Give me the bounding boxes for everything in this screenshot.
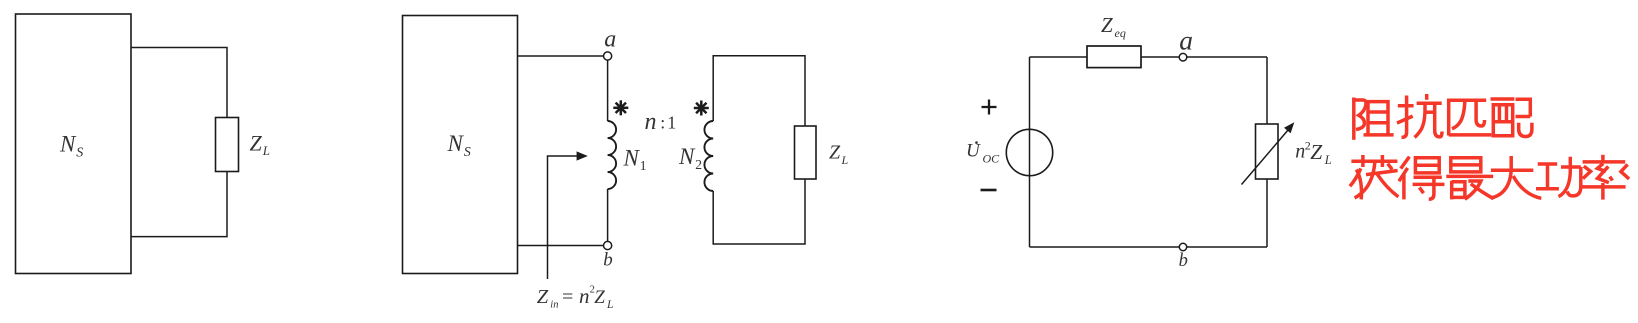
plus sign of source: [982, 100, 997, 115]
wire Zeq to terminal a: [1141, 56, 1179, 58]
svg-text:N: N: [447, 131, 465, 156]
hanzi ZU (block): [1354, 98, 1394, 140]
network box NS (left circuit): [16, 14, 132, 274]
svg-text:Z: Z: [594, 287, 605, 308]
svg-text:n: n: [645, 109, 657, 135]
svg-text:S: S: [76, 146, 83, 161]
hanzi PEI (pair): [1491, 99, 1532, 137]
variable resistor diagonal line: [1242, 130, 1289, 185]
hanzi GONG (work): [1536, 157, 1581, 197]
svg-text:=: =: [562, 286, 573, 308]
svg-text:N: N: [678, 144, 696, 169]
terminal b (middle): [604, 241, 612, 249]
svg-text:Z: Z: [1310, 140, 1323, 164]
resistor ZL c1: [216, 118, 239, 172]
svg-text:L: L: [606, 299, 613, 311]
svg-text:Z: Z: [250, 131, 263, 156]
svg-text:Z: Z: [1101, 13, 1113, 37]
terminal b (right): [1179, 243, 1186, 250]
variable resistor arrow head: [1284, 122, 1294, 133]
wire top loop c1: [131, 48, 227, 118]
dot marker asterisk N1: [613, 100, 628, 115]
Zin arrow: [548, 156, 579, 279]
hanzi LV (rate): [1581, 155, 1629, 200]
wire bottom right to terminal b: [1187, 246, 1267, 248]
resistor Zeq: [1087, 46, 1141, 68]
svg-text:L: L: [262, 143, 270, 158]
svg-text:Z: Z: [829, 141, 841, 163]
svg-text::: :: [660, 112, 665, 132]
minus sign of source: [981, 189, 997, 192]
wire bottom right loop: [713, 179, 805, 244]
variable resistor n2ZL box: [1256, 124, 1279, 179]
svg-text:b: b: [603, 250, 613, 271]
svg-text:N: N: [623, 145, 641, 170]
svg-text:Z: Z: [537, 286, 549, 308]
wire bottom loop c1: [131, 172, 227, 237]
wire right side down to variable resistor: [1266, 57, 1268, 124]
wire box to terminal a: [518, 55, 604, 57]
wire coil N1 to terminal b: [607, 189, 609, 241]
svg-text:S: S: [464, 145, 471, 160]
hanzi DA (big): [1491, 156, 1541, 198]
hanzi DE (get): [1399, 157, 1445, 200]
svg-text:a: a: [1179, 24, 1193, 55]
hanzi KANG (resist): [1397, 94, 1442, 137]
svg-text:N: N: [59, 132, 77, 157]
svg-text:n: n: [579, 284, 590, 308]
terminal a (middle): [604, 52, 612, 60]
svg-text:n: n: [1295, 141, 1305, 163]
svg-text:2: 2: [695, 157, 702, 172]
wire left branch through source: [1029, 57, 1031, 247]
inductor N2: [704, 121, 713, 191]
wire top left c3: [1030, 56, 1088, 58]
svg-text:L: L: [841, 153, 849, 167]
hanzi HUO (obtain): [1350, 155, 1399, 199]
wire terminal a to coil N1: [607, 60, 609, 121]
wire terminal b to bottom left corner: [1030, 246, 1180, 248]
network box NS (middle circuit): [403, 16, 518, 274]
svg-text:L: L: [1324, 153, 1332, 167]
svg-text:1: 1: [667, 112, 676, 132]
svg-text:in: in: [550, 300, 558, 311]
hanzi ZUI (most): [1446, 158, 1493, 200]
wire top right loop: [713, 56, 805, 126]
wire terminal a to right corner: [1187, 56, 1267, 58]
wire terminal b to box: [518, 245, 604, 247]
hanzi PI (match): [1449, 100, 1492, 135]
svg-text:U: U: [966, 140, 981, 161]
svg-text:1: 1: [640, 158, 647, 173]
svg-text:eq: eq: [1115, 26, 1126, 40]
svg-text:b: b: [1179, 251, 1188, 271]
svg-text:OC: OC: [983, 151, 1001, 165]
wire variable resistor to bottom corner: [1266, 179, 1268, 247]
inductor N1: [608, 121, 617, 189]
voltage source Uoc circle: [1006, 129, 1052, 175]
Zin arrow head: [577, 151, 588, 160]
terminal a (right): [1179, 53, 1187, 61]
resistor ZL c2: [795, 126, 817, 179]
dot marker asterisk N2: [694, 101, 709, 116]
svg-text:a: a: [604, 26, 616, 52]
